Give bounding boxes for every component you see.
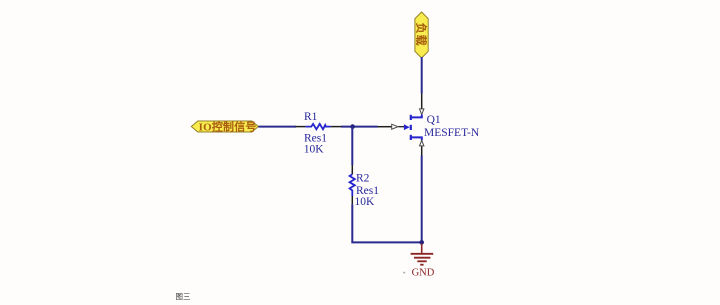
pin: R1 pin 2 (black)	[331, 126, 341, 128]
wire: R1 to node A / Q1 gate	[341, 126, 378, 128]
wire: top port to Q1 drain	[421, 57, 423, 94]
svg-text:MESFET-N: MESFET-N	[424, 127, 480, 139]
port P2 (top, vertical) 负载	[414, 12, 428, 58]
pin direction arrow (gate, hollow)	[392, 124, 398, 129]
node A junction dot	[350, 124, 355, 129]
ground GND	[403, 244, 435, 279]
svg-text:GND: GND	[412, 268, 435, 279]
pin: R2 pin 1 (black)	[351, 165, 353, 174]
pin: Q1 gate pin (black)	[378, 126, 392, 128]
pin: R1 pin 1 (black)	[296, 126, 306, 128]
svg-text:R2: R2	[356, 173, 370, 185]
wire: Q1 source down to node B	[421, 156, 423, 243]
pin: Q1 drain pin (black)	[421, 94, 423, 109]
port P1 (left) IO控制信号	[191, 120, 258, 134]
svg-text:负载: 负载	[414, 23, 428, 47]
resistor R2 (zigzag, vertical)	[350, 174, 355, 196]
svg-text:IO控制信号: IO控制信号	[199, 120, 257, 134]
resistor R1 (zigzag)	[305, 124, 330, 129]
svg-text:10K: 10K	[355, 196, 376, 208]
svg-text:R1: R1	[304, 111, 318, 123]
svg-text:Q1: Q1	[427, 114, 441, 126]
svg-text:10K: 10K	[304, 144, 325, 156]
pin: R2 pin 2 (black)	[351, 196, 353, 204]
wire: R2 bottom to node B	[352, 204, 421, 242]
transistor Q1 MESFET-N symbol	[404, 115, 422, 141]
svg-text:图三: 图三	[176, 292, 191, 300]
wire: node A down to R2	[351, 127, 353, 165]
pin direction arrow (source, hollow)	[420, 140, 424, 146]
pin direction arrow (drain, hollow)	[420, 109, 424, 115]
pin: gate pin inner segment (black)	[398, 126, 404, 128]
svg-text:Res1: Res1	[304, 132, 327, 144]
node B junction dot	[419, 240, 424, 245]
pin: Q1 source pin (black)	[421, 146, 423, 155]
wire: port to R1	[258, 126, 296, 128]
